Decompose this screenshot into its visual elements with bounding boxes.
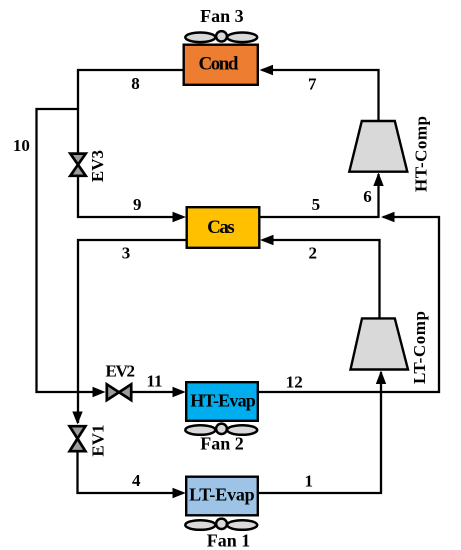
- wire 11 (EV2 to HT-Evap): [133, 391, 184, 393]
- fan icon Fan 3: [185, 31, 257, 42]
- svg-text:Cas: Cas: [207, 217, 235, 238]
- svg-text:EV3: EV3: [88, 150, 107, 182]
- wire 12 (HT-Evap out, up the right riser, into junction): [259, 217, 440, 392]
- arrow into HT-Comp (wire 6): [373, 173, 383, 187]
- wire 4 (EV1 to LT-Evap): [78, 452, 184, 493]
- wire 8 (Cond outlet to EV3 line): [78, 70, 183, 153]
- wire 3 (Cas down to EV1): [78, 240, 186, 423]
- arrow into Cas (wire 9): [173, 212, 187, 222]
- evaporator HT-Evap: [186, 382, 258, 421]
- svg-text:HT-Evap: HT-Evap: [190, 391, 256, 411]
- condenser Cond: [184, 45, 258, 85]
- arrow into LT-Evap (wire 4): [173, 488, 186, 498]
- fan icon Fan 2: [185, 424, 257, 435]
- wire 7 (HT-Comp discharge to Cond): [262, 70, 379, 122]
- arrow into Cas (wire 2): [260, 235, 274, 245]
- wire 5 (Cas to HT-Comp suction junction): [261, 216, 379, 218]
- svg-text:11: 11: [146, 371, 162, 390]
- compressor LT-Comp: [351, 318, 409, 369]
- wire 9 (EV3 to Cas): [78, 176, 183, 217]
- fan icon Fan 1: [185, 519, 257, 530]
- svg-text:10: 10: [13, 136, 30, 155]
- svg-text:4: 4: [132, 471, 141, 490]
- svg-text:12: 12: [286, 373, 303, 392]
- svg-text:Fan 2: Fan 2: [200, 434, 244, 454]
- svg-text:3: 3: [122, 244, 131, 263]
- svg-text:2: 2: [308, 243, 317, 262]
- arrow into Cond (wire 7): [260, 65, 274, 75]
- compressor HT-Comp: [349, 121, 407, 172]
- svg-text:Fan 1: Fan 1: [207, 531, 251, 550]
- expansion valve EV3: [70, 154, 85, 176]
- svg-text:7: 7: [308, 75, 317, 94]
- svg-text:5: 5: [312, 195, 321, 214]
- svg-text:8: 8: [131, 74, 140, 93]
- wire 2 (LT-Comp discharge to Cas): [263, 240, 380, 319]
- wire 6 (junction up into HT-Comp): [377, 174, 379, 218]
- cascade heat exchanger Cas: [187, 207, 260, 248]
- svg-text:6: 6: [363, 187, 372, 206]
- svg-text:9: 9: [133, 195, 142, 214]
- wire 1 (LT-Evap to LT-Comp suction): [259, 372, 381, 493]
- expansion valve EV1: [70, 426, 86, 451]
- svg-text:EV2: EV2: [106, 362, 136, 381]
- svg-text:Cond: Cond: [199, 54, 239, 75]
- svg-text:HT-Comp: HT-Comp: [411, 116, 430, 192]
- arrow into HT-Evap (wire 11): [173, 387, 186, 397]
- expansion valve EV2: [107, 384, 131, 400]
- arrow into EV1 (wire 3): [72, 412, 82, 425]
- svg-text:1: 1: [305, 472, 314, 491]
- arrow into LT-Comp (wire 1): [376, 371, 386, 385]
- svg-text:LT-Comp: LT-Comp: [410, 311, 429, 384]
- svg-text:Fan 3: Fan 3: [200, 6, 244, 26]
- svg-text:EV1: EV1: [89, 424, 108, 456]
- svg-text:LT-Evap: LT-Evap: [189, 485, 255, 505]
- arrow into junction (wire 12): [381, 212, 395, 222]
- evaporator LT-Evap: [186, 477, 258, 516]
- arrow into EV2 (wire 10): [93, 387, 106, 397]
- wire 10 (tee off EV3 line down to EV2): [37, 109, 95, 392]
